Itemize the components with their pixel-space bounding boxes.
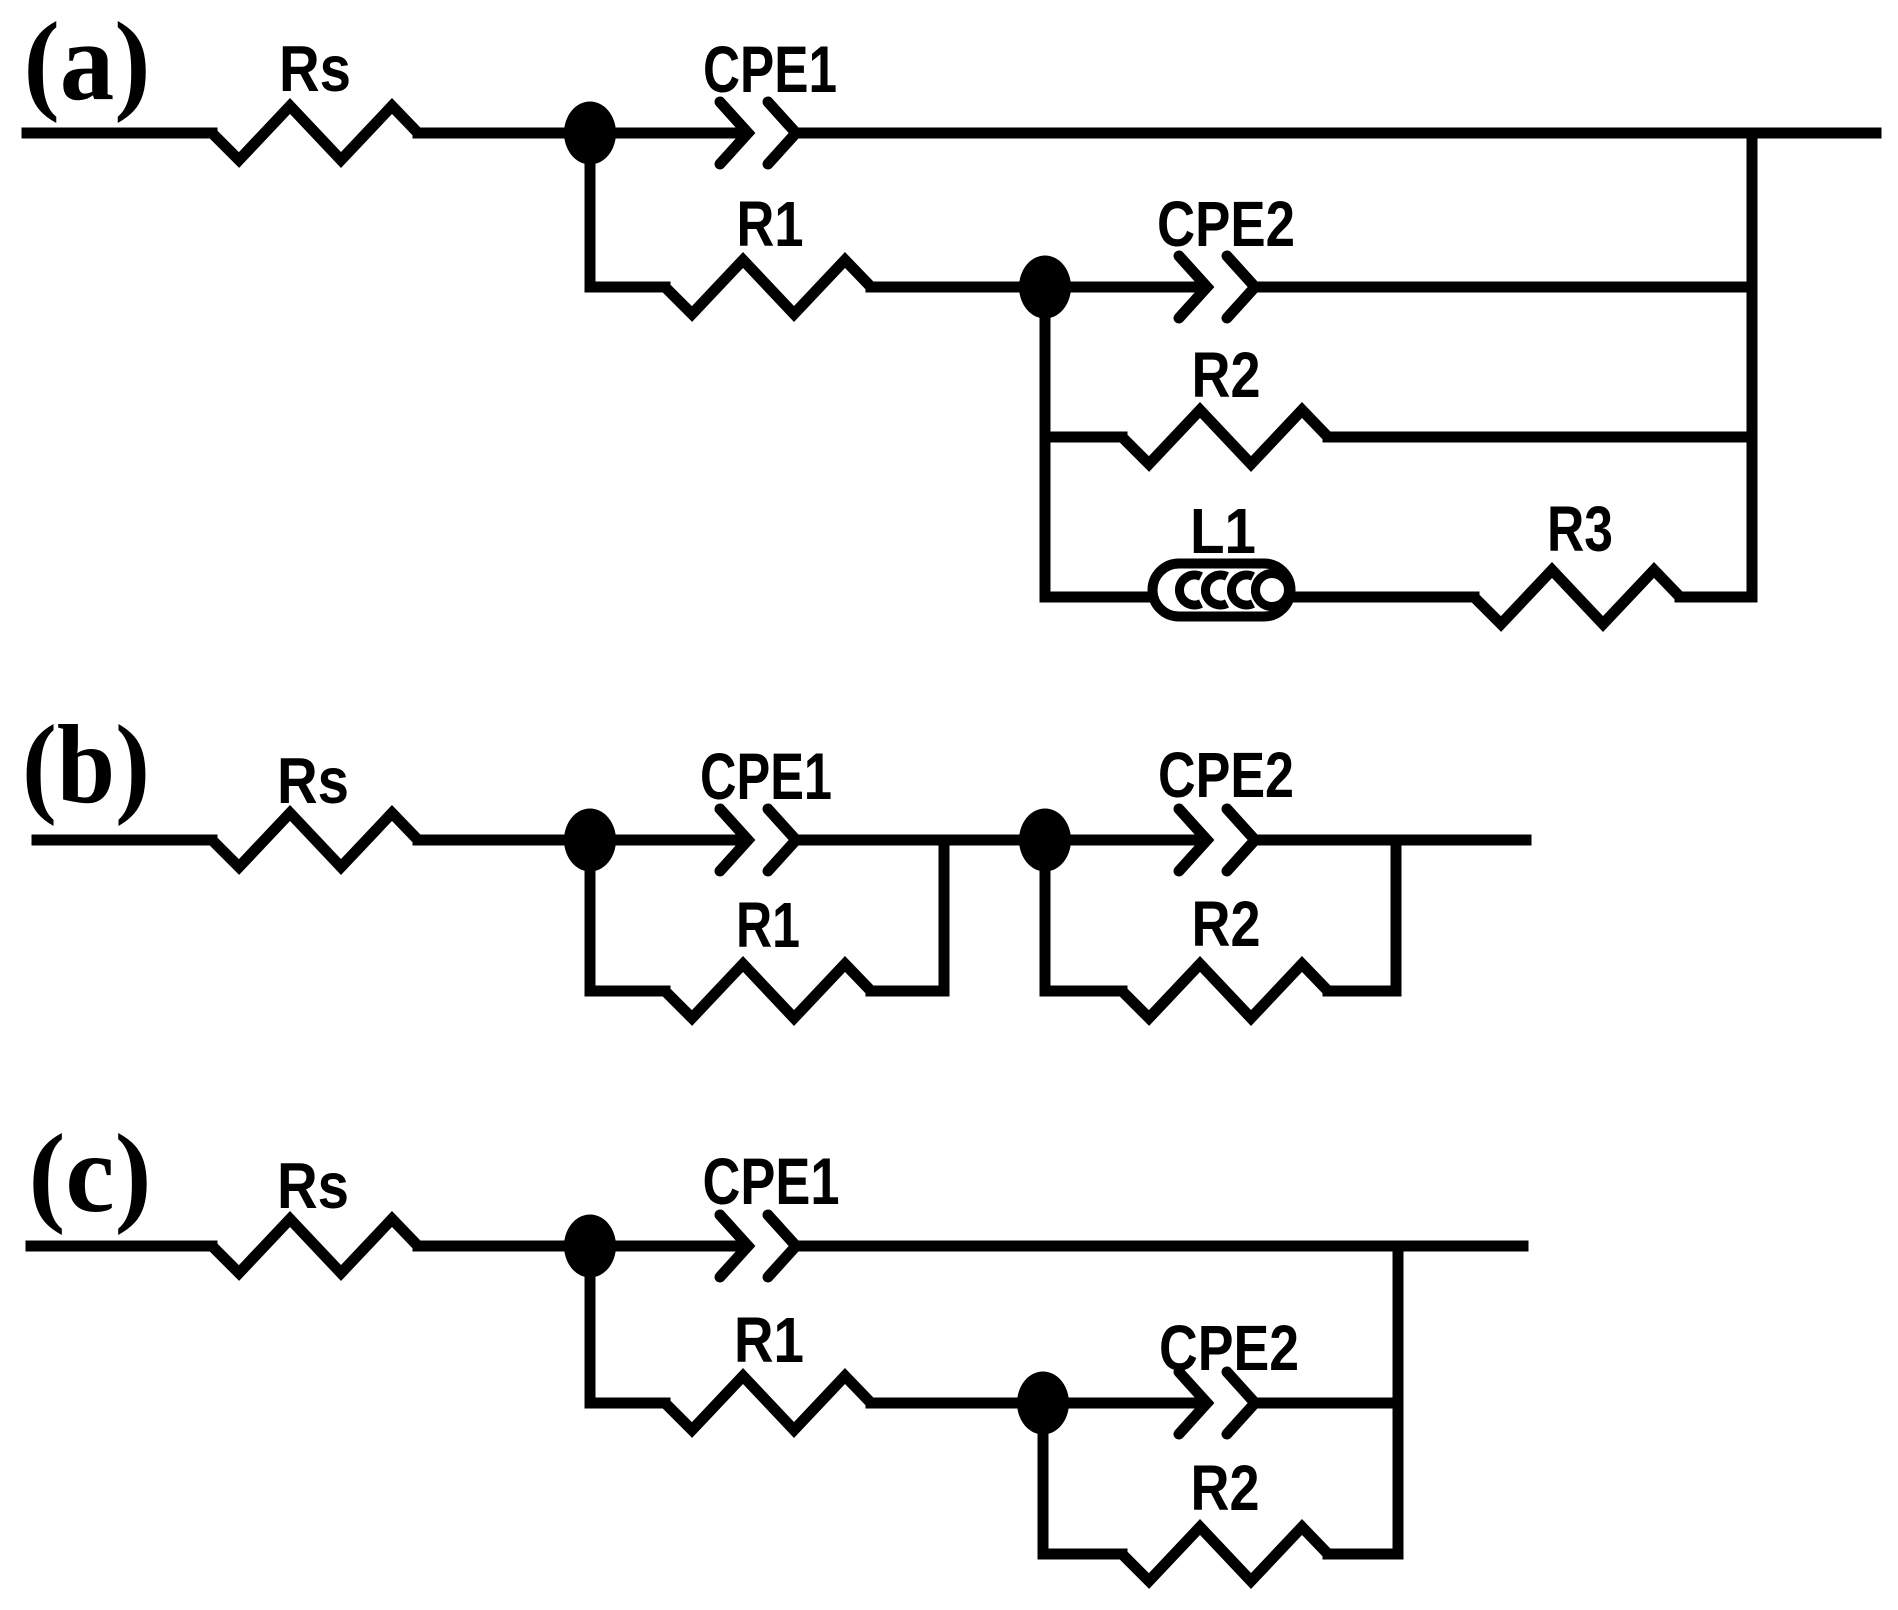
inductor L1 (coil of overlapping loops) — [1153, 564, 1291, 617]
wire a: R3 to right rail corner — [1680, 592, 1752, 603]
CPE element CPE2 (panel b) (double-chevron symbol) — [1179, 809, 1207, 871]
resistor R1 (panel a) — [665, 260, 871, 314]
svg-text:R2: R2 — [1192, 339, 1261, 411]
wire b: CPE2 to output lead — [1260, 835, 1526, 846]
resistor R2 (panel a) — [1122, 410, 1328, 464]
CPE element CPE1 (panel a) (double-chevron symbol) — [720, 102, 748, 164]
svg-text:R2: R2 — [1192, 888, 1261, 960]
wire a: L1 to R3 — [1290, 592, 1474, 603]
wire c: CPE2 to right rail — [1260, 1398, 1398, 1409]
wire b: CPE1 to node B2 — [801, 835, 1203, 846]
svg-text:R1: R1 — [736, 889, 800, 961]
wire b: node B2 down (R2 branch left leg) — [1045, 840, 1122, 991]
svg-text:Rs: Rs — [277, 1149, 349, 1222]
wire a: input lead — [27, 128, 212, 139]
node C2 (panel c) (junction dot) — [1017, 1372, 1069, 1435]
svg-text:CPE2: CPE2 — [1158, 739, 1294, 811]
wire c: CPE1 to output lead — [801, 1241, 1523, 1252]
wire c: node C2 down (R2 branch left leg) — [1043, 1403, 1122, 1554]
node A1 (panel a) (junction dot) — [564, 102, 616, 165]
node A2 (panel a) (junction dot) — [1019, 256, 1071, 319]
CPE element CPE1 (panel c) (double-chevron symbol) — [720, 1215, 748, 1277]
wire a: node A2 down to R2/L1 branches — [1040, 287, 1051, 597]
resistor Rs (panel c) — [212, 1219, 418, 1273]
resistor R1 (panel c) — [665, 1376, 871, 1430]
svg-text:L1: L1 — [1190, 495, 1256, 567]
resistor Rs (panel a) — [212, 106, 418, 160]
wire b: R2 up to main line (right leg) — [1328, 840, 1396, 991]
wire b: Rs to node B1 / CPE1 — [418, 835, 744, 846]
resistor R2 (panel b) — [1122, 964, 1328, 1018]
wire a: CPE1 to right rail / output — [801, 128, 1876, 139]
svg-text:CPE1: CPE1 — [700, 739, 832, 813]
svg-text:CPE2: CPE2 — [1159, 1312, 1299, 1384]
svg-text:Rs: Rs — [279, 32, 351, 105]
wire a: branch to L1 — [1045, 592, 1155, 603]
svg-text:CPE1: CPE1 — [703, 1144, 840, 1218]
svg-text:R3: R3 — [1547, 493, 1613, 565]
wire a: node A1 down to R1 branch — [590, 133, 665, 287]
wire a: R2 to right rail — [1328, 432, 1752, 443]
wire a: right rail (vertical bus) — [1747, 133, 1758, 597]
svg-text:R2: R2 — [1191, 1452, 1260, 1524]
svg-text:(c): (c) — [29, 1112, 152, 1236]
wire b: R1 up to main line (right leg) — [871, 840, 944, 991]
wire c: R2 to right rail corner — [1328, 1549, 1398, 1560]
svg-text:Rs: Rs — [277, 744, 349, 817]
wire a: branch to R2 — [1045, 432, 1122, 443]
wire b: input lead — [37, 835, 212, 846]
wire a: CPE2 to right rail — [1260, 282, 1752, 293]
resistor R3 (panel a) — [1474, 570, 1680, 624]
wire b: node B1 down (R1 branch left leg) — [590, 840, 665, 991]
svg-text:R1: R1 — [737, 188, 804, 260]
wire c: right rail (vertical) — [1393, 1246, 1404, 1554]
resistor R2 (panel c) — [1122, 1527, 1328, 1581]
resistor Rs (panel b) — [212, 813, 418, 867]
CPE element CPE2 (panel c) (double-chevron symbol) — [1179, 1372, 1207, 1434]
svg-text:CPE2: CPE2 — [1157, 188, 1295, 260]
svg-text:R1: R1 — [734, 1304, 804, 1376]
wire a: R1 to node A2 / CPE2 — [871, 282, 1203, 293]
node B2 (panel b) (junction dot) — [1019, 809, 1071, 872]
CPE element CPE1 (panel b) (double-chevron symbol) — [720, 809, 748, 871]
svg-text:(b): (b) — [22, 703, 150, 827]
wire c: Rs to node C1 / CPE1 — [418, 1241, 744, 1252]
resistor R1 (panel b) — [665, 964, 871, 1018]
wire c: input lead — [31, 1241, 212, 1252]
wire c: R1 to node C2 / CPE2 — [871, 1398, 1203, 1409]
CPE element CPE2 (panel a) (double-chevron symbol) — [1179, 256, 1207, 318]
wire a: Rs to node A1 / CPE1 — [418, 128, 744, 139]
wire c: node C1 down to R1 branch — [590, 1246, 665, 1403]
svg-text:CPE1: CPE1 — [703, 32, 837, 106]
node B1 (panel b) (junction dot) — [564, 809, 616, 872]
node C1 (panel c) (junction dot) — [564, 1215, 616, 1278]
svg-text:(a): (a) — [24, 0, 151, 124]
